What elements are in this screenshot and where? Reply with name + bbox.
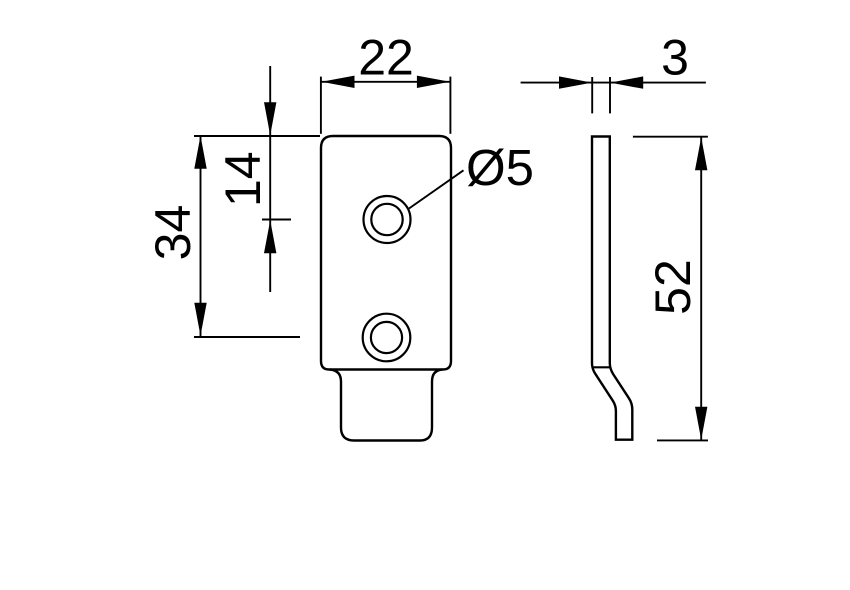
- dimension 22: arrowhead right: [417, 76, 450, 88]
- dimension 14: arrowhead lower (points up): [264, 220, 276, 253]
- dimension 52: extension line top: [633, 136, 708, 138]
- dimension 34: extension line bottom (hole H2 center): [194, 336, 300, 338]
- dimension 3: arrowhead right: [610, 76, 643, 88]
- svg-text:14: 14: [215, 151, 271, 207]
- hole H1 inner circle: [371, 204, 402, 235]
- dimension 14: extension tick at hole H1 center: [262, 219, 291, 221]
- dimension 52: extension line bottom: [657, 439, 708, 441]
- side view: bent strip outline: [592, 137, 632, 440]
- svg-text:Ø5: Ø5: [466, 139, 534, 196]
- dimension 22: dimension line: [321, 81, 450, 83]
- dimension Ø5: leader line to hole H1: [409, 170, 464, 208]
- dimension 52: dimension line: [700, 137, 702, 440]
- dimension 22: extension line right: [449, 77, 451, 134]
- dimension 34: extension line top (plate top edge): [194, 135, 320, 137]
- hole H1 outer circle: [364, 196, 411, 243]
- svg-text:3: 3: [661, 30, 689, 86]
- dimension 22: arrowhead left: [322, 76, 355, 88]
- dimension 34: arrowhead top (points up): [194, 136, 206, 169]
- dimension 3: extension line left: [591, 77, 593, 113]
- front view: bottom tab outline: [330, 370, 442, 441]
- hole H2 inner circle: [371, 322, 402, 353]
- side view: bend line: [592, 366, 610, 368]
- dimension 34: dimension line: [200, 136, 202, 337]
- dimension 34: arrowhead bottom (points down): [194, 303, 206, 336]
- dimension 52: arrowhead bottom (points down): [695, 407, 707, 440]
- svg-text:34: 34: [145, 205, 201, 261]
- dimension 14: arrowhead upper (points down): [264, 102, 276, 135]
- front view: plate outline: [321, 136, 451, 370]
- dimension 3: arrowhead left: [559, 76, 592, 88]
- dimension 3: extension line right: [609, 77, 611, 113]
- hole H2 outer circle: [363, 314, 411, 362]
- dimension 22: extension line left: [320, 77, 322, 134]
- dimension 52: arrowhead top (points up): [695, 137, 707, 170]
- svg-text:52: 52: [645, 259, 701, 315]
- svg-text:22: 22: [358, 30, 414, 86]
- dimension 14: dimension line: [269, 66, 271, 292]
- dimension 3: dimension line: [521, 82, 706, 84]
